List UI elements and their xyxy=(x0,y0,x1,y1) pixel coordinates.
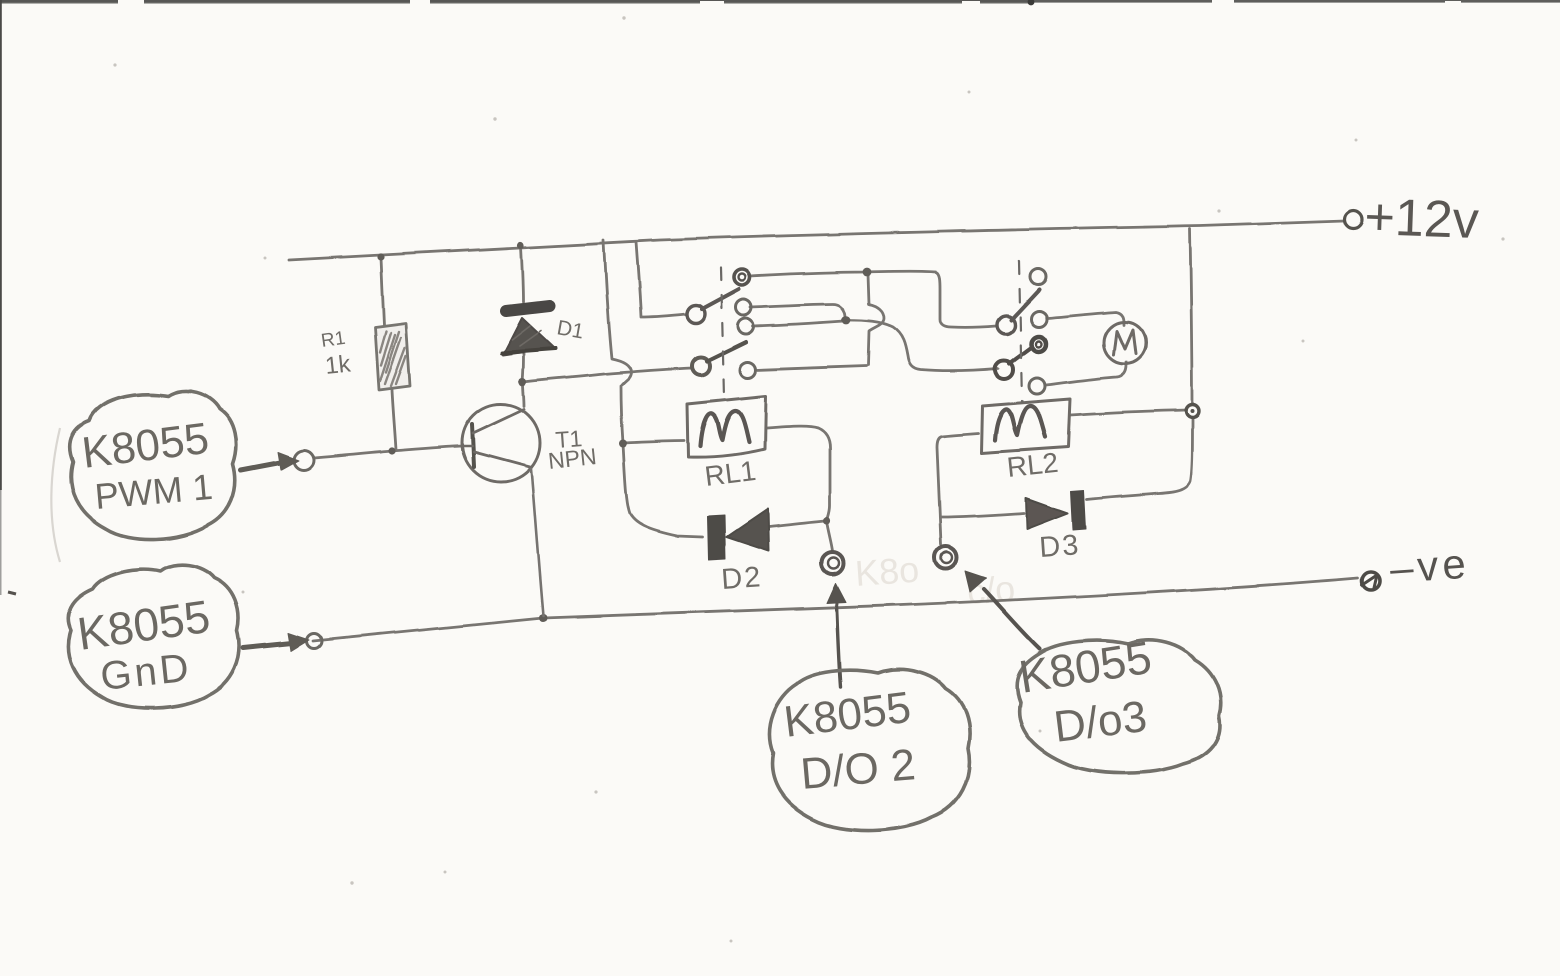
svg-text:R1: R1 xyxy=(320,328,347,352)
svg-text:D3: D3 xyxy=(1038,529,1081,564)
svg-text:RL1: RL1 xyxy=(703,455,758,492)
svg-text:1k: 1k xyxy=(324,350,353,380)
svg-text:K8o: K8o xyxy=(854,549,921,594)
svg-text:D/O 2: D/O 2 xyxy=(799,740,918,799)
svg-text:D1: D1 xyxy=(555,316,585,343)
svg-text:D2: D2 xyxy=(720,561,763,596)
svg-text:NPN: NPN xyxy=(547,443,598,474)
svg-text:RL2: RL2 xyxy=(1005,447,1059,483)
svg-text:+12v: +12v xyxy=(1364,188,1480,250)
svg-text:–ve: –ve xyxy=(1388,540,1471,592)
